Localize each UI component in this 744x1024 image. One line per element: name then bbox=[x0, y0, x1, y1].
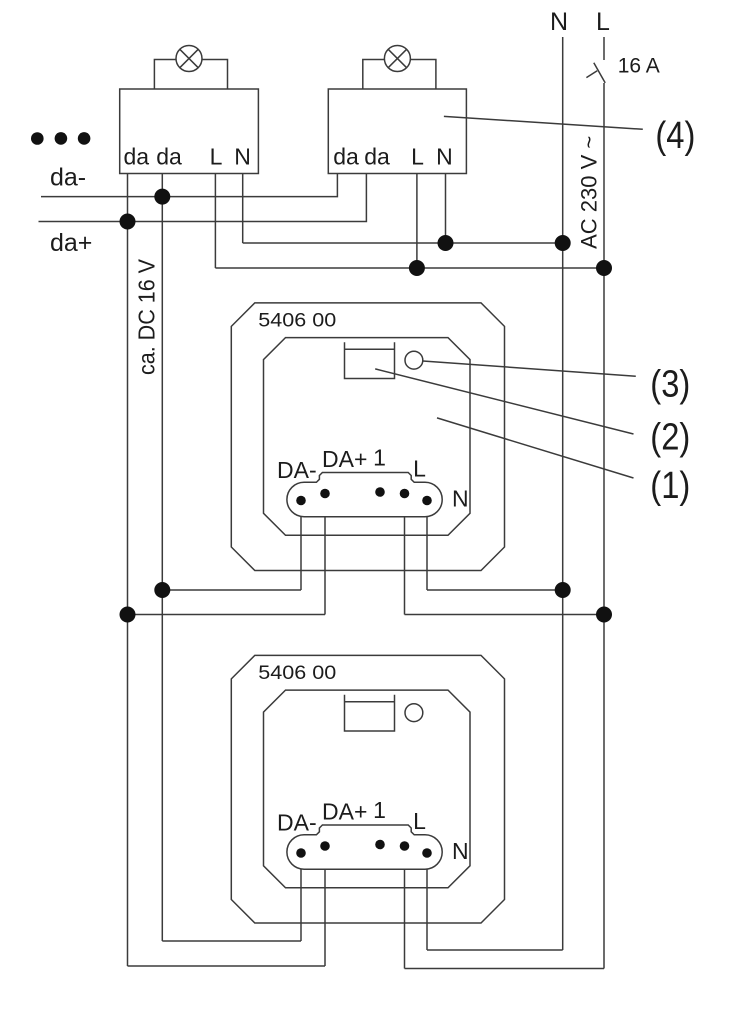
wire U2 DA+ pin down bbox=[324, 869, 326, 966]
svg-text:(3): (3) bbox=[650, 363, 690, 405]
device U2 indicator LED bbox=[405, 704, 423, 722]
lamp E1 bbox=[176, 46, 202, 72]
svg-text:N: N bbox=[234, 144, 251, 170]
svg-text:1: 1 bbox=[373, 444, 386, 470]
svg-text:(2): (2) bbox=[650, 417, 690, 459]
svg-text:L: L bbox=[411, 144, 424, 170]
wire box2 L pin bbox=[416, 174, 418, 269]
svg-text:N: N bbox=[452, 485, 469, 511]
junction da- bus / da- vertical bbox=[154, 189, 170, 205]
wire U1 L pin down bbox=[404, 517, 406, 615]
svg-text:5406 00: 5406 00 bbox=[258, 662, 336, 684]
svg-text:da: da bbox=[333, 144, 359, 170]
wire U2 DA+ run bbox=[128, 965, 326, 967]
svg-text:L: L bbox=[413, 808, 426, 834]
device U2 outer frame bbox=[231, 655, 504, 923]
breaker F1 16A bbox=[586, 63, 605, 83]
wire lamp E1 left lead bbox=[154, 60, 176, 90]
wire da+ bus bbox=[39, 174, 367, 222]
junction N run / N column bbox=[555, 235, 571, 251]
device U1 outer frame bbox=[231, 303, 504, 571]
wire U1 DA- run bbox=[162, 589, 301, 591]
wire N column bbox=[562, 37, 564, 950]
svg-text:5406 00: 5406 00 bbox=[258, 309, 336, 331]
wire U2 DA- run bbox=[162, 940, 301, 942]
wire box1 L pin bbox=[214, 174, 216, 269]
wire U1 DA+ run bbox=[128, 614, 326, 616]
wire box1 N pin bbox=[242, 174, 244, 244]
junction box2 N pin / N run bbox=[438, 235, 454, 251]
svg-text:L: L bbox=[210, 144, 223, 170]
svg-text:da+: da+ bbox=[50, 229, 92, 257]
svg-text:da: da bbox=[364, 144, 390, 170]
wire U1 DA+ pin down bbox=[324, 517, 326, 615]
device U1 terminal block bbox=[287, 473, 442, 517]
wire da- vertical (box1 da pin down) bbox=[161, 174, 163, 942]
svg-text:ca. DC 16 V: ca. DC 16 V bbox=[134, 258, 160, 375]
ballast box 2 bbox=[328, 89, 466, 174]
svg-text:DA+: DA+ bbox=[322, 798, 367, 824]
device U1 indicator LED (3) bbox=[405, 351, 423, 369]
wire U1 N pin down bbox=[426, 517, 428, 590]
svg-text:da: da bbox=[156, 144, 182, 170]
device U1 programming button (2) bbox=[345, 342, 395, 378]
device U1 terminal dots bbox=[296, 487, 432, 505]
leader line (2) bbox=[375, 369, 633, 434]
device U2 terminal labels bbox=[277, 797, 469, 864]
svg-text:N: N bbox=[550, 8, 568, 36]
wire U2 N pin down bbox=[426, 869, 428, 950]
device U2 programming button bbox=[345, 695, 395, 731]
device U2 terminal dots bbox=[296, 840, 432, 858]
wire lamp E1 right lead bbox=[202, 60, 228, 90]
svg-text:da-: da- bbox=[50, 164, 86, 192]
device U1 inner frame bbox=[264, 338, 471, 536]
wire N run top bbox=[243, 242, 563, 244]
junction da+ bus / da+ vertical bbox=[120, 214, 136, 230]
junction U1 N run / N column bbox=[555, 582, 571, 598]
wire L column lower bbox=[603, 83, 605, 969]
svg-text:16 A: 16 A bbox=[618, 55, 660, 78]
wire da+ vertical (box1 da pin down) bbox=[127, 174, 129, 967]
svg-text:DA-: DA- bbox=[277, 810, 317, 836]
svg-text:DA-: DA- bbox=[277, 457, 317, 483]
leader line (4) bbox=[444, 116, 643, 129]
junction L run / L column bbox=[596, 260, 612, 276]
wire lamp E2 right lead bbox=[410, 60, 436, 90]
wire U1 DA- pin down bbox=[300, 517, 302, 590]
svg-text:(1): (1) bbox=[650, 465, 690, 507]
svg-text:da: da bbox=[124, 144, 150, 170]
wire U2 L run bbox=[405, 968, 605, 970]
wire U2 L pin down bbox=[404, 869, 406, 968]
leader line (1) bbox=[437, 418, 634, 478]
wire U2 DA- pin down bbox=[300, 869, 302, 941]
junction U1 DA- run / da- vertical bbox=[154, 582, 170, 598]
junction U1 DA+ run / da+ vertical bbox=[120, 607, 136, 623]
svg-text:N: N bbox=[452, 838, 469, 864]
wire lamp E2 left lead bbox=[363, 60, 385, 90]
wire U1 L run bbox=[405, 614, 605, 616]
svg-text:N: N bbox=[436, 144, 453, 170]
svg-text:L: L bbox=[413, 456, 426, 482]
ellipsis dots (bus continuation) bbox=[31, 132, 90, 145]
wire L run top bbox=[215, 267, 604, 269]
svg-text:DA+: DA+ bbox=[322, 446, 367, 472]
wire U1 N run bbox=[427, 589, 563, 591]
svg-text:(4): (4) bbox=[655, 115, 695, 157]
leader line (3) bbox=[423, 361, 636, 376]
device U1 terminal labels bbox=[277, 444, 469, 511]
device U2 terminal block bbox=[287, 825, 442, 869]
junction U1 L run / L column bbox=[596, 607, 612, 623]
svg-text:1: 1 bbox=[373, 797, 386, 823]
lamp E2 bbox=[384, 46, 410, 72]
device U2 inner frame bbox=[264, 690, 471, 888]
ballast box 1 bbox=[120, 89, 259, 174]
wire da- bus bbox=[41, 174, 337, 197]
wire L column upper bbox=[603, 37, 605, 60]
wire U2 N run bbox=[427, 949, 563, 951]
svg-text:AC 230 V ~: AC 230 V ~ bbox=[577, 136, 602, 249]
wire box2 N pin bbox=[445, 174, 447, 244]
svg-text:L: L bbox=[596, 8, 610, 36]
junction box2 L pin / L run bbox=[409, 260, 425, 276]
